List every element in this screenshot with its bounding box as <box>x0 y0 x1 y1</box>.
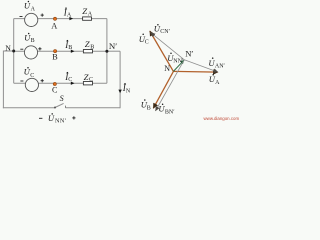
node N dot <box>12 50 15 53</box>
wire: bottom neutral right segment from switch <box>66 107 121 109</box>
phasor label U_B <box>141 99 151 111</box>
svg-text:BN′: BN′ <box>165 109 175 115</box>
voltage source UB <box>24 46 37 59</box>
label UA <box>24 0 36 12</box>
svg-text:C: C <box>52 86 58 95</box>
node A dot <box>53 17 56 20</box>
svg-text:www.diangon.com: www.diangon.com <box>204 116 240 121</box>
svg-text:Z: Z <box>82 6 87 16</box>
wire: bottom neutral left segment to switch <box>3 107 55 109</box>
impedance Z_A box <box>83 17 92 20</box>
svg-text:N′: N′ <box>185 49 193 59</box>
bottom minus sign <box>39 117 42 119</box>
label I_B <box>64 40 72 51</box>
label UC <box>24 67 35 79</box>
svg-text:AN′: AN′ <box>215 63 226 69</box>
label I_A <box>63 7 72 18</box>
svg-text:N: N <box>126 89 131 95</box>
wire: neutral from N going left then down <box>3 51 13 108</box>
label Z_C <box>84 72 93 83</box>
phasor U_C <box>150 31 174 71</box>
label I_N <box>122 83 131 95</box>
label Z_A <box>82 6 92 17</box>
svg-text:S: S <box>60 94 64 103</box>
wire: phase C horizontal line <box>14 82 107 84</box>
minus sign source C <box>20 80 23 82</box>
minus sign source B <box>20 48 23 50</box>
bottom plus sign <box>72 116 75 119</box>
svg-text:A: A <box>88 12 93 18</box>
label Z_B <box>85 39 94 50</box>
label UB <box>24 32 35 44</box>
phasor label U_NN' <box>167 53 184 65</box>
svg-text:N′: N′ <box>109 41 117 51</box>
svg-text:B: B <box>31 38 35 44</box>
svg-text:B: B <box>52 53 58 62</box>
wire: phase A horizontal line <box>14 18 107 20</box>
minus sign source A <box>20 16 23 18</box>
phasor label U_A <box>209 74 220 86</box>
svg-text:A: A <box>215 80 220 86</box>
switch S blade <box>55 103 64 107</box>
svg-text:Z: Z <box>84 72 89 82</box>
phasor U_BN' <box>155 60 184 111</box>
svg-text:A: A <box>67 12 72 18</box>
wire: phase B horizontal line <box>14 50 107 52</box>
plus sign source C <box>41 79 44 82</box>
svg-text:C: C <box>145 40 149 46</box>
svg-text:B: B <box>68 45 72 51</box>
svg-text:C: C <box>68 77 72 83</box>
label I_C <box>64 72 72 83</box>
svg-text:CN′: CN′ <box>160 29 170 35</box>
phasor U_A <box>173 70 218 73</box>
wire: neutral return vertical with I_N <box>119 51 121 108</box>
voltage source UA <box>25 13 38 26</box>
svg-text:U: U <box>48 113 55 123</box>
phasor label U_AN' <box>208 57 225 69</box>
wire: N' branch right <box>107 50 120 52</box>
phasor U_CN' <box>151 33 185 60</box>
phasor U_NN' <box>173 60 184 72</box>
wire: left source-neutral vertical bus <box>13 19 15 84</box>
current arrow I_N <box>118 90 121 94</box>
impedance Z_B box <box>83 50 92 53</box>
wire: right vertical bus joining loads at N' <box>106 19 108 84</box>
phasor U_B <box>153 71 173 108</box>
svg-text:NN′: NN′ <box>173 58 184 64</box>
bottom label U_NN' <box>48 113 67 125</box>
voltage source UC <box>25 78 38 91</box>
switch left contact dot <box>54 107 56 109</box>
svg-text:C: C <box>89 77 93 83</box>
node C dot <box>53 82 56 85</box>
plus sign source A <box>41 14 44 17</box>
current arrow I_B <box>71 50 75 53</box>
node N' dot <box>105 50 108 53</box>
phasor U_AN' <box>184 60 218 72</box>
phasor label U_CN' <box>154 23 171 35</box>
current arrow I_A <box>69 17 73 20</box>
node B dot <box>54 50 57 53</box>
impedance Z_C box <box>83 82 92 85</box>
phasor label U_C <box>139 33 149 45</box>
current arrow I_C <box>71 82 75 85</box>
svg-text:A: A <box>31 6 36 12</box>
svg-text:A: A <box>51 22 57 31</box>
svg-text:B: B <box>147 106 151 112</box>
svg-text:NN′: NN′ <box>55 117 67 124</box>
phasor label U_BN' <box>158 104 175 116</box>
svg-text:N: N <box>5 44 11 53</box>
plus sign source B <box>38 47 41 50</box>
switch right contact tick <box>65 106 67 108</box>
svg-text:N: N <box>164 64 170 73</box>
svg-text:Z: Z <box>85 39 90 49</box>
svg-text:C: C <box>30 73 34 79</box>
svg-text:B: B <box>90 45 94 51</box>
